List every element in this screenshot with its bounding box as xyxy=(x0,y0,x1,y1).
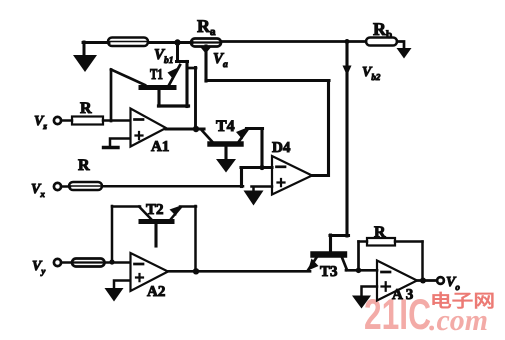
resistor R (A3 feedback) xyxy=(367,238,395,246)
resistor R (Vz input) xyxy=(72,117,103,125)
wire T1 collector to A1 inverting input xyxy=(110,70,113,122)
wire T1 emitter to A1 output jog xyxy=(187,67,196,70)
wire Rb to supply arrow xyxy=(397,42,404,51)
junction A2 output / T2 loop xyxy=(193,268,199,274)
terminal Vx xyxy=(54,183,61,190)
wire Vy to R xyxy=(61,261,72,264)
wire jog up to D4 inverting net xyxy=(240,168,243,187)
svg-text:D4: D4 xyxy=(272,140,291,156)
op-amp D4 xyxy=(272,156,312,195)
wire R to A1 inverting input xyxy=(103,119,130,122)
wire R to A2 inverting input xyxy=(105,261,131,264)
wire D4 loop top xyxy=(206,79,329,82)
svg-text:T3: T3 xyxy=(320,264,338,280)
junction T4 emitter / D4 inverting xyxy=(259,165,264,170)
wire jog Vb1 to T1 emitter net xyxy=(177,60,188,63)
wire D4 output loop right xyxy=(312,174,329,177)
node Vb1 junction xyxy=(174,39,180,45)
terminal Vz xyxy=(54,117,61,124)
wire A3 output xyxy=(417,279,437,282)
node Va arrow xyxy=(199,46,213,54)
negative supply arrow (top left) xyxy=(73,42,97,72)
wire node Vb1 down xyxy=(176,42,179,62)
wire T1 base loop bottom xyxy=(159,104,189,107)
ground arrow (D4 noninverting) xyxy=(244,191,264,206)
wire T2 loop right vertical xyxy=(194,206,197,271)
wire Vz to R xyxy=(61,119,72,122)
resistor Rb xyxy=(366,38,397,46)
wire D4 output riser xyxy=(327,81,330,176)
wire Va riser under Ra xyxy=(204,46,207,81)
transistor T1 xyxy=(111,65,180,106)
wire Vb2 jog to T3 base xyxy=(330,235,349,251)
wire T2 loop top left xyxy=(112,205,140,208)
terminal Vy xyxy=(54,259,61,266)
negative supply arrow (T4 base) xyxy=(216,159,236,173)
negative supply arrow (right of Rb) xyxy=(397,48,412,59)
svg-text:R: R xyxy=(80,100,92,117)
terminal Vo xyxy=(437,277,444,284)
wire feedback to R xyxy=(359,240,368,243)
wire feedback left riser xyxy=(357,242,360,270)
wire A1 noninverting input xyxy=(110,139,130,147)
junction A1 output / riser xyxy=(193,126,199,132)
transistor T3 xyxy=(308,255,347,271)
resistor Ra xyxy=(191,39,221,47)
wire top rail left segment xyxy=(83,41,109,44)
wire feedback right riser xyxy=(421,242,424,281)
svg-text:A1: A1 xyxy=(151,139,169,155)
wire A2 output to T3 xyxy=(168,270,310,273)
op-amp A1 xyxy=(131,109,167,147)
wire A2 noninverting input xyxy=(114,281,130,290)
node Vb2 junction xyxy=(345,39,350,44)
svg-text:A2: A2 xyxy=(147,284,165,300)
resistor R (Vy input) xyxy=(72,259,105,267)
wire T3 collector to A3 inverting input xyxy=(346,269,377,272)
wire A1 output xyxy=(166,127,204,130)
wire T2 loop left vertical xyxy=(111,206,114,262)
wire T1 base loop vertical xyxy=(185,62,188,107)
svg-text:电子网: 电子网 xyxy=(430,291,495,311)
transistor T4 xyxy=(202,128,248,160)
wire T4 emitter to D4 inverting input xyxy=(247,129,263,169)
ground arrow (A2 noninverting) xyxy=(105,288,124,302)
wire A3 noninverting input xyxy=(362,287,378,297)
resistor R (Vx input) xyxy=(69,182,102,190)
wire Vx to R xyxy=(61,185,70,188)
junction T2 collector / A2 input xyxy=(109,259,114,264)
wire T2 loop top right xyxy=(180,205,196,208)
wire D4 noninverting input xyxy=(252,187,273,193)
wire A1 output riser xyxy=(194,68,197,130)
arrow marker on Vb2 wire xyxy=(343,66,352,76)
svg-text:A 3: A 3 xyxy=(392,287,413,303)
svg-text:R: R xyxy=(374,224,386,241)
op-amp A2 xyxy=(131,253,169,291)
ground (A1 noninverting) xyxy=(104,146,119,149)
wire Vx to jog xyxy=(102,185,243,188)
resistor (top left, unlabeled) xyxy=(108,38,148,47)
wire Vb2 vertical xyxy=(345,42,348,237)
wire top rail Ra to Rb xyxy=(221,40,366,43)
svg-text:R: R xyxy=(78,157,90,174)
svg-text:T1: T1 xyxy=(150,67,163,83)
wire into D4 inverting input xyxy=(241,166,272,169)
wire R to output riser xyxy=(395,240,423,243)
junction A3 inverting / feedback xyxy=(356,268,362,274)
ground arrow (A3 noninverting) xyxy=(352,296,371,309)
wire top rail to node Vb1 xyxy=(148,41,192,44)
op-amp A3 xyxy=(377,261,417,301)
svg-text:T4: T4 xyxy=(216,118,235,135)
transistor T2 xyxy=(139,206,181,246)
junction A3 output / feedback xyxy=(420,278,426,284)
